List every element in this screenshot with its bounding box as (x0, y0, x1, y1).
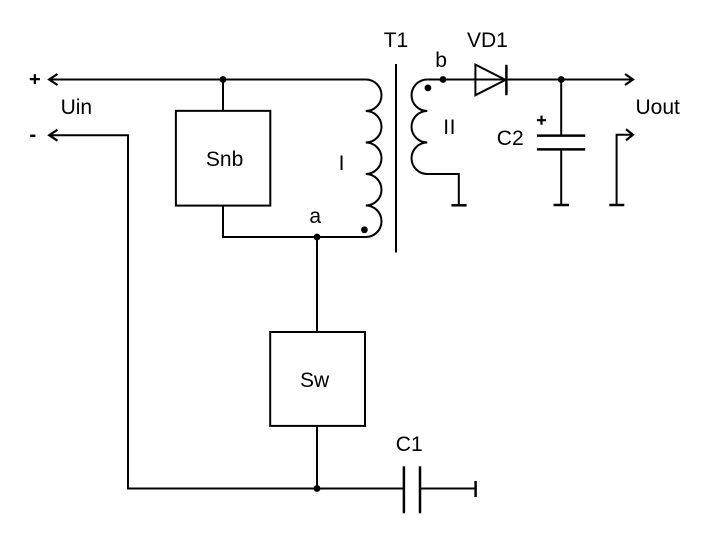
svg-text:C2: C2 (497, 127, 524, 150)
svg-text:II: II (443, 116, 456, 139)
svg-text:VD1: VD1 (467, 29, 508, 52)
svg-text:C1: C1 (396, 433, 423, 456)
svg-text:Sw: Sw (300, 369, 330, 392)
svg-text:T1: T1 (384, 29, 409, 52)
svg-text:Snb: Snb (206, 148, 243, 171)
svg-text:Uout: Uout (636, 96, 681, 119)
svg-text:I: I (339, 152, 345, 175)
svg-text:a: a (309, 205, 321, 228)
svg-text:Uin: Uin (61, 96, 93, 119)
svg-text:b: b (435, 49, 447, 72)
